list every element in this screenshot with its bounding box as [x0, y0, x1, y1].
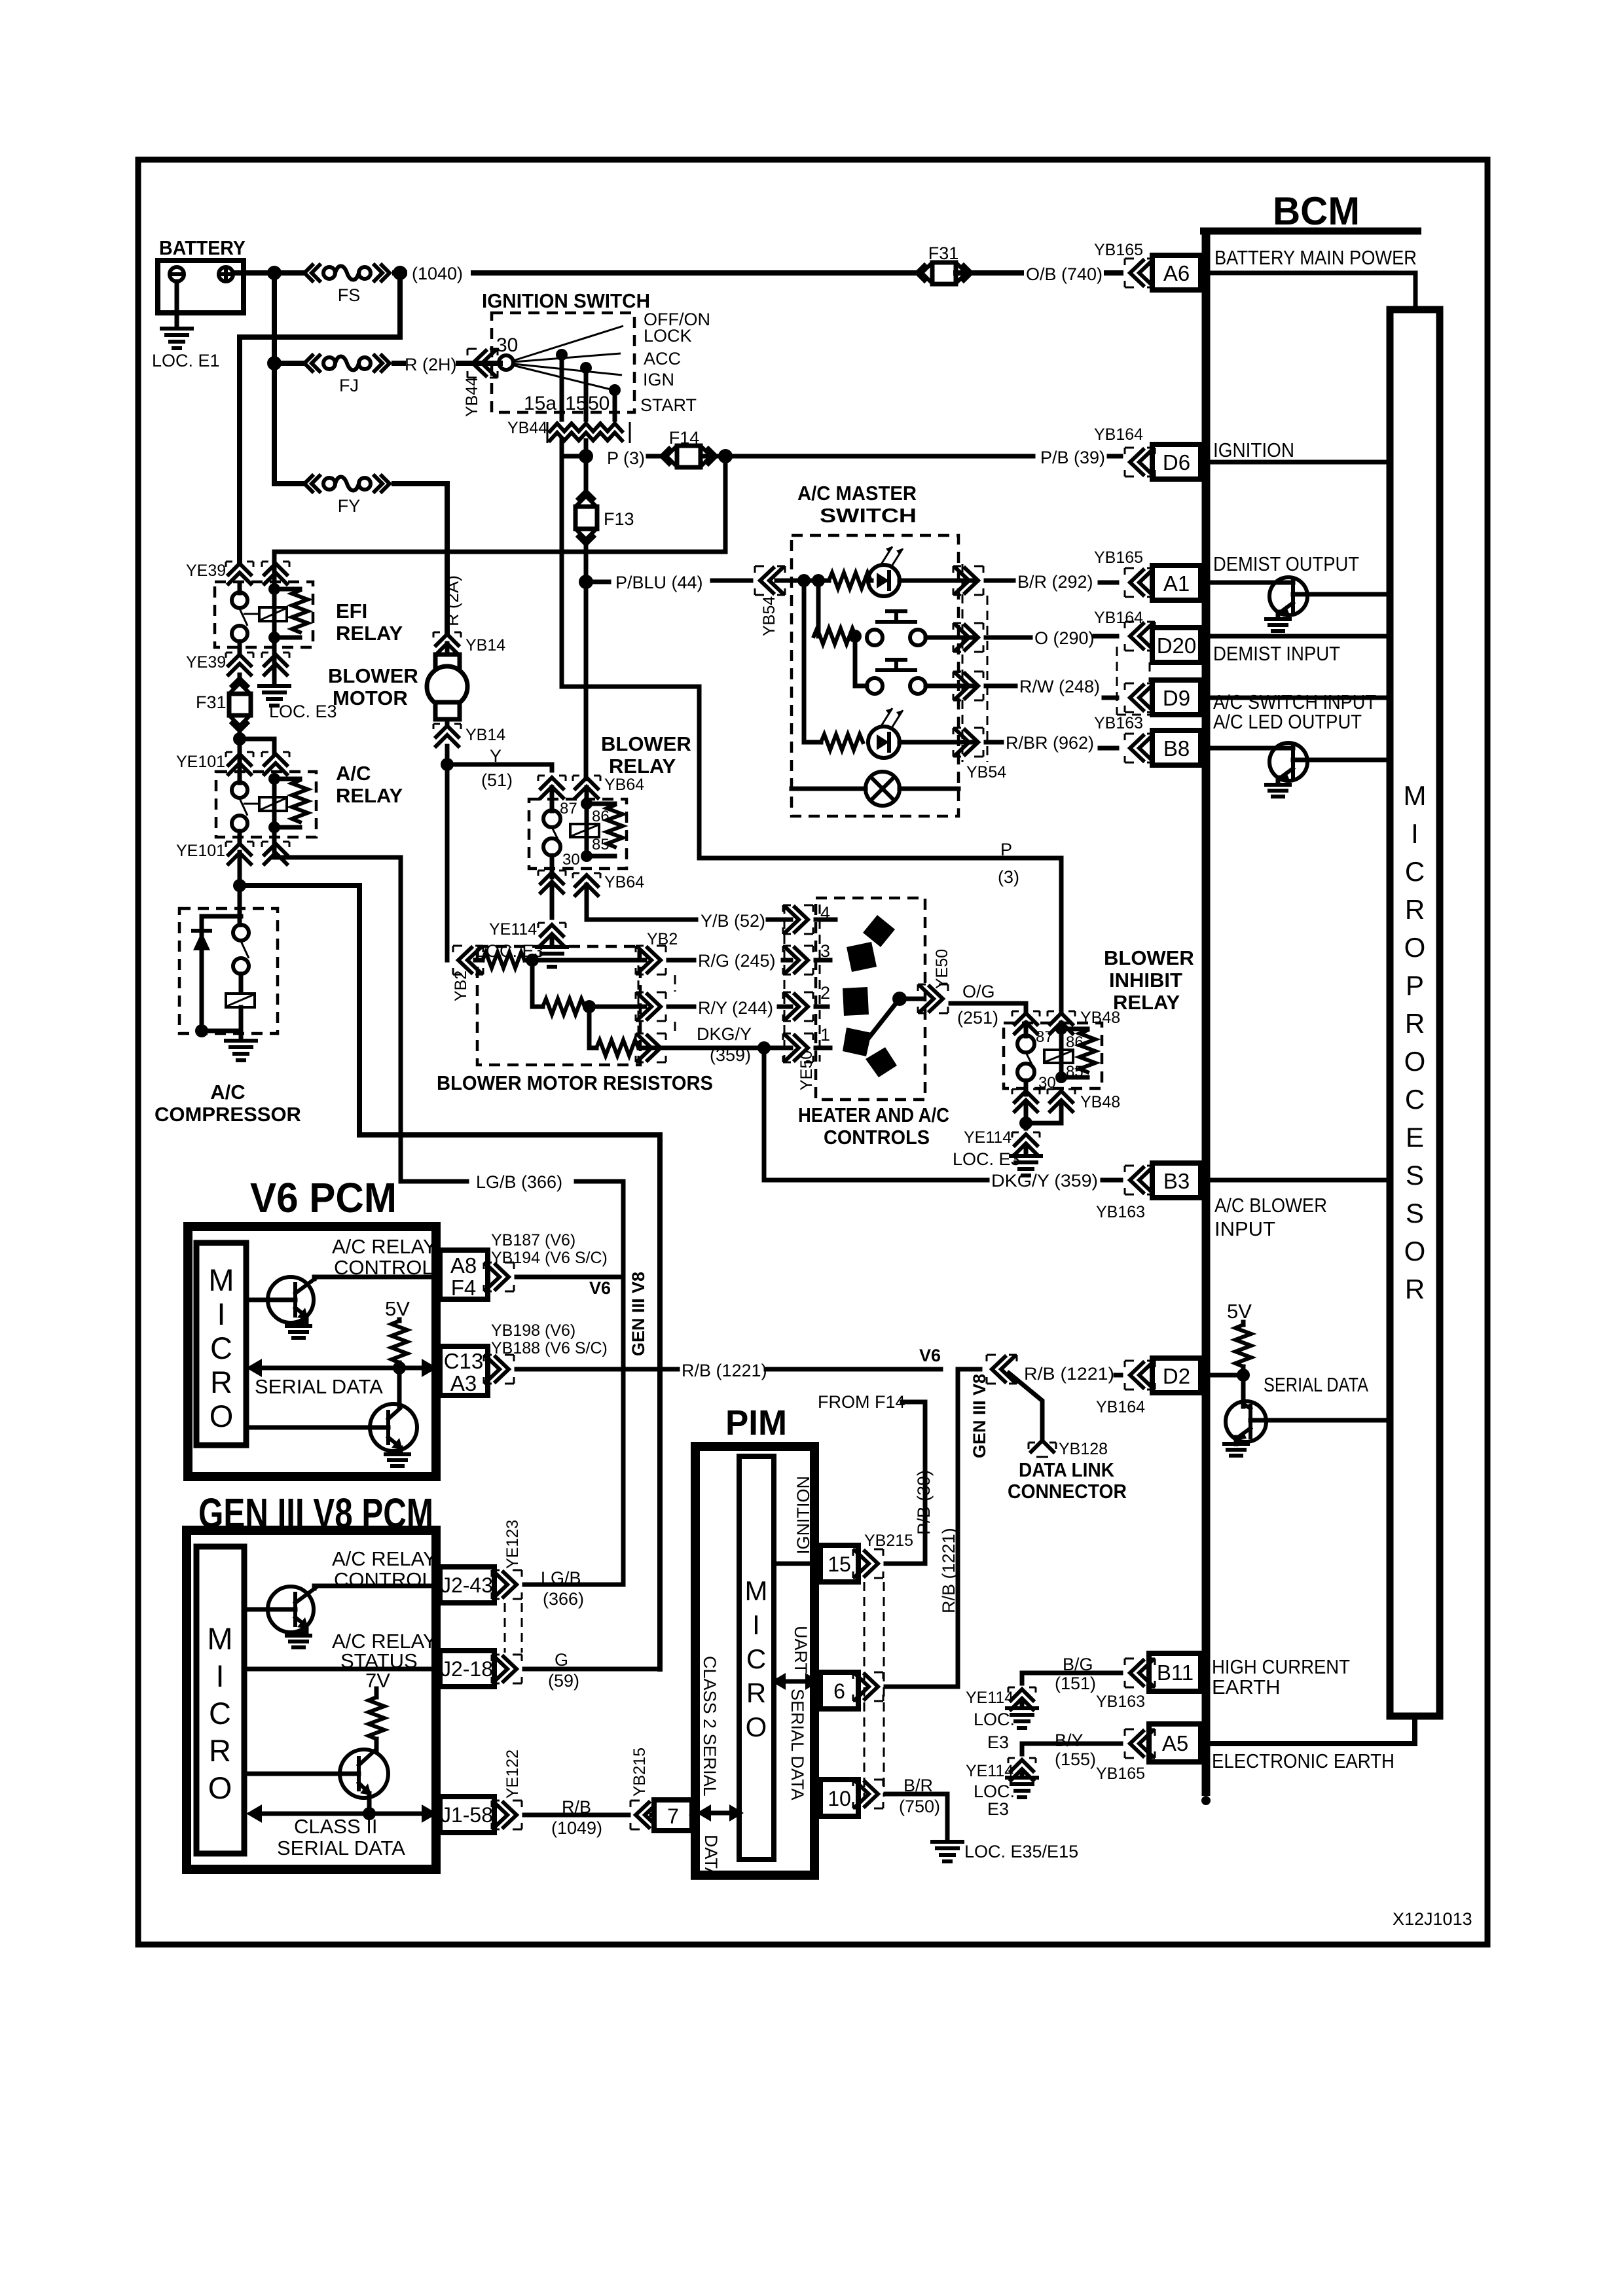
svg-text:LOC. E35/E15: LOC. E35/E15 [964, 1842, 1078, 1861]
svg-text:15: 15 [565, 393, 587, 414]
wire row1 to B/R [956, 579, 976, 583]
V6 PCM box [188, 1227, 436, 1477]
svg-text:CONNECTOR: CONNECTOR [1008, 1480, 1127, 1503]
svg-text:A/C RELAY: A/C RELAY [332, 1547, 437, 1570]
BCM top bar [1200, 228, 1421, 235]
svg-text:6: 6 [833, 1679, 845, 1703]
svg-text:I: I [217, 1297, 225, 1331]
svg-text:50: 50 [588, 393, 610, 414]
svg-text:E: E [1406, 1122, 1424, 1153]
ground LOC. E3 (EFI relay) [259, 686, 337, 721]
svg-text:5V: 5V [1227, 1300, 1252, 1323]
svg-text:INPUT: INPUT [1214, 1217, 1275, 1240]
svg-text:S: S [1406, 1160, 1424, 1191]
svg-text:A/C: A/C [336, 762, 371, 785]
svg-text:RELAY: RELAY [336, 622, 403, 645]
svg-text:UART: UART [791, 1626, 811, 1674]
svg-text:A/C LED OUTPUT: A/C LED OUTPUT [1213, 710, 1362, 733]
svg-text:EARTH: EARTH [1212, 1676, 1281, 1698]
wire (1040) to F31 [395, 270, 919, 276]
svg-text:A8: A8 [450, 1253, 477, 1278]
wire D20 to microprocessor [1210, 634, 1390, 639]
pin J2-18 [440, 1651, 494, 1687]
label CLASS 2 SERIAL DATA [697, 1656, 744, 1879]
wire to A/C relay status net [240, 886, 660, 1669]
label UART SERIAL DATA [771, 1626, 820, 1801]
svg-text:LOC.: LOC. [974, 1710, 1015, 1729]
svg-text:DKG/Y: DKG/Y [697, 1024, 752, 1044]
node master feed 1 [797, 574, 811, 587]
resistor (demist LED) [829, 573, 871, 588]
connector YE101 (bottom) [176, 842, 289, 864]
ground (Q5) [386, 1454, 409, 1466]
svg-text:V6: V6 [919, 1346, 941, 1365]
wire F14 to D6 (P/B 39) [702, 454, 1121, 459]
connector YB164 (D2) [1096, 1361, 1155, 1416]
svg-text:D20: D20 [1157, 634, 1197, 658]
serial data bus arrow (V6) [246, 1359, 437, 1398]
label B/Y (155) [1055, 1731, 1096, 1769]
svg-text:LOCK: LOCK [644, 326, 692, 346]
connector YB48 (bottom) [1012, 1089, 1120, 1111]
wire LG/B (366) net [401, 1181, 623, 1585]
resistor (A/C LED) [804, 581, 863, 750]
wire row2 to O (290) [956, 636, 976, 640]
node blower motor output [441, 758, 454, 771]
node battery junction [267, 266, 282, 280]
svg-text:LOC. E1: LOC. E1 [152, 351, 220, 370]
wire to A/C relay coil side [240, 739, 274, 755]
svg-text:I: I [752, 1609, 760, 1640]
transistor Q4 (V6 A/C relay control) [246, 1277, 440, 1323]
svg-text:D6: D6 [1163, 450, 1190, 475]
svg-text:MOTOR: MOTOR [333, 687, 408, 709]
label BLOWER INHIBIT RELAY [1104, 946, 1194, 1014]
svg-text:C13: C13 [444, 1349, 484, 1373]
BCM main line [1202, 231, 1211, 1796]
node ignition IGN contact [580, 362, 592, 374]
connector YB165 (A6) [1094, 241, 1155, 287]
svg-text:(750): (750) [899, 1797, 940, 1816]
svg-text:1: 1 [820, 1025, 830, 1045]
connector YB64 (bottom) [538, 870, 644, 895]
wire O/B to A6 connector [1106, 270, 1121, 276]
ground (B/G) [1007, 1700, 1037, 1728]
wire P/BLU to A/C master switch [586, 581, 751, 582]
pin B3 [1152, 1163, 1201, 1198]
svg-text:YB163: YB163 [1096, 1693, 1145, 1711]
svg-text:R/W (248): R/W (248) [1019, 677, 1100, 696]
pin 7 (PIM) [651, 1800, 692, 1831]
svg-text:A/C: A/C [210, 1081, 245, 1103]
wire D9 to microprocessor [1210, 696, 1390, 700]
connector YB48 (top) [1012, 1009, 1120, 1033]
pin A5 [1149, 1724, 1201, 1762]
svg-text:(3): (3) [998, 867, 1019, 887]
pin 6 (PIM) [820, 1672, 858, 1709]
svg-text:B8: B8 [1163, 736, 1190, 761]
wire R (2H) to ignition switch [394, 361, 500, 366]
svg-text:A3: A3 [450, 1371, 477, 1395]
svg-text:YE114: YE114 [489, 920, 537, 939]
svg-text:(1040): (1040) [412, 264, 463, 283]
svg-text:R/B (1221): R/B (1221) [939, 1528, 958, 1613]
svg-text:P/B (39): P/B (39) [914, 1470, 934, 1535]
resistor R3 (blower) [589, 1007, 684, 1056]
wire pin15 down to P (3) node [584, 440, 589, 456]
wire inhibit relay to YE114 ground [1019, 1102, 1061, 1130]
svg-text:A1: A1 [1163, 571, 1190, 596]
svg-text:YE114: YE114 [964, 1128, 1012, 1147]
svg-text:YE39: YE39 [186, 562, 226, 580]
svg-text:YB14: YB14 [465, 726, 505, 744]
ground (Q3) [1224, 1444, 1248, 1456]
svg-text:S: S [1406, 1198, 1424, 1229]
svg-text:O: O [210, 1399, 234, 1433]
connector YB54 (input) [755, 566, 785, 636]
svg-text:P: P [1000, 840, 1012, 859]
wire P (3) down to inhibit relay coil [1059, 858, 1064, 1011]
svg-text:YE101: YE101 [176, 842, 225, 860]
svg-text:(151): (151) [1055, 1674, 1096, 1693]
svg-text:E3: E3 [987, 1732, 1009, 1752]
relay EFI RELAY K1 [215, 552, 403, 652]
svg-text:YB187 (V6): YB187 (V6) [491, 1231, 575, 1249]
wire A8/F4 to LG/B vertical [517, 1275, 623, 1280]
wire G (59) to status vertical [524, 1667, 660, 1672]
wire micro to pin 15 [774, 1562, 820, 1566]
connector YB165 (A1) [1094, 548, 1155, 597]
node emitter junction [363, 1807, 376, 1820]
svg-text:CONTROLS: CONTROLS [824, 1126, 930, 1149]
connector YB215 (pin 7) [630, 1748, 661, 1829]
connector YB165 (A5) [1096, 1729, 1155, 1783]
blower motor resistors box [437, 946, 713, 1094]
svg-text:YE114: YE114 [966, 1689, 1013, 1707]
svg-text:YE123: YE123 [503, 1520, 522, 1569]
wire P(3) left branch down [562, 456, 1061, 858]
svg-text:V6 PCM: V6 PCM [250, 1174, 397, 1221]
connector D9 (dashed group) [1117, 647, 1155, 715]
svg-text:P/BLU (44): P/BLU (44) [615, 573, 703, 592]
svg-text:YB198 (V6): YB198 (V6) [491, 1321, 575, 1340]
ground LOC. E3 (inhibit relay) [953, 1145, 1041, 1175]
svg-text:BLOWER: BLOWER [601, 732, 691, 755]
connector YB163 (B3) [1096, 1166, 1155, 1221]
svg-text:O/B (740): O/B (740) [1026, 264, 1103, 284]
svg-text:R/B (1221): R/B (1221) [1024, 1364, 1114, 1384]
svg-text:YB44: YB44 [463, 377, 481, 417]
svg-text:DATA: DATA [701, 1835, 721, 1879]
transistor Q3 (serial data) [1226, 1375, 1390, 1444]
svg-text:YB194 (V6 S/C): YB194 (V6 S/C) [491, 1249, 608, 1267]
wire O to D20 [986, 636, 1117, 637]
label A/C RELAY CONTROL (V8) [332, 1547, 437, 1591]
battery B1 [158, 236, 246, 327]
relay BLOWER INHIBIT RELAY K4 [1004, 1023, 1102, 1094]
connector YB64 (top) [538, 776, 644, 798]
svg-text:86: 86 [1066, 1033, 1084, 1051]
svg-text:C: C [1405, 856, 1425, 887]
svg-text:EFI: EFI [336, 600, 367, 622]
node ignition ACC contact [556, 349, 568, 361]
svg-text:Y/B (52): Y/B (52) [701, 911, 765, 931]
node P (3) [579, 449, 593, 463]
svg-text:P (3): P (3) [607, 448, 645, 468]
svg-text:O: O [208, 1770, 232, 1805]
svg-text:IGNITION: IGNITION [793, 1476, 813, 1554]
svg-text:SWITCH: SWITCH [820, 504, 917, 527]
svg-text:IGN: IGN [643, 370, 674, 389]
ground (Q4) [287, 1326, 310, 1338]
svg-text:INHIBIT: INHIBIT [1109, 969, 1182, 992]
label Y (51) [481, 746, 513, 790]
wire pin 6 R/B (1221) up to D2 net [886, 1369, 980, 1687]
connector YB44 (switch bottom) [507, 419, 630, 443]
pin J1-58 [440, 1797, 494, 1833]
LED A/C indicator [868, 708, 976, 758]
svg-text:FY: FY [338, 496, 361, 516]
svg-text:O: O [1404, 1046, 1426, 1077]
svg-text:B11: B11 [1157, 1660, 1194, 1685]
connector YB14 (top) [433, 632, 505, 655]
svg-text:PIM: PIM [725, 1403, 787, 1443]
connector YB164 (D6) [1094, 425, 1155, 476]
connector YE39 (bottom) [186, 653, 289, 675]
svg-text:YB128: YB128 [1059, 1440, 1108, 1458]
fuse FY [274, 476, 447, 632]
wire R/W to D9 [986, 686, 1117, 698]
connector YE114 (B/Y) [966, 1758, 1036, 1819]
wire J2-43 to LG/B vertical [524, 1583, 623, 1587]
V8 micro box [196, 1547, 244, 1854]
node master feed 2 [812, 574, 825, 587]
label R/B (1049) [551, 1797, 602, 1838]
svg-text:F31: F31 [196, 692, 227, 712]
svg-text:HEATER AND A/C: HEATER AND A/C [798, 1103, 949, 1126]
svg-text:J2-18: J2-18 [441, 1657, 493, 1681]
compressor clutch A/C COMPRESSOR [155, 886, 301, 1126]
svg-text:(59): (59) [548, 1671, 579, 1691]
svg-text:R: R [1405, 1274, 1425, 1304]
svg-text:YB64: YB64 [604, 873, 644, 891]
svg-text:I: I [1411, 818, 1419, 849]
svg-text:YB165: YB165 [1094, 241, 1143, 259]
connector R/B splice [987, 1355, 1017, 1384]
svg-text:J2-43: J2-43 [441, 1573, 493, 1597]
label A/C BLOWER INPUT [1214, 1194, 1327, 1240]
connector YB44 (ignition switch) [463, 349, 498, 417]
svg-text:F13: F13 [604, 509, 634, 529]
relay BLOWER RELAY K3 [529, 787, 627, 877]
svg-text:LG/B (366): LG/B (366) [476, 1172, 562, 1192]
wire B/R (750) to ground [886, 1794, 947, 1840]
wire R/B (1221) V6 serial [517, 1367, 941, 1372]
resistor 5V pull-up [1235, 1322, 1251, 1375]
svg-text:R (2A): R (2A) [443, 575, 462, 626]
pin D6 [1152, 444, 1201, 479]
svg-text:15: 15 [828, 1552, 851, 1576]
svg-text:M: M [1404, 780, 1427, 811]
svg-text:A/C MASTER: A/C MASTER [797, 482, 917, 505]
svg-text:C: C [746, 1643, 766, 1674]
resistor R1 (blower) [475, 952, 645, 968]
fuse FS [304, 265, 390, 305]
wire P/BLU down to blower relay [584, 582, 589, 779]
svg-text:BATTERY: BATTERY [159, 236, 246, 259]
A/C master switch [792, 482, 958, 816]
connector (pin 10) [853, 1780, 883, 1808]
svg-text:R: R [210, 1365, 232, 1399]
pin A1 [1152, 565, 1201, 600]
ground (B/Y) [1007, 1771, 1037, 1797]
svg-text:LOC.: LOC. [974, 1782, 1015, 1801]
svg-text:R: R [209, 1733, 231, 1768]
wire DKG/Y to heater controls [684, 1046, 791, 1050]
connector YE122 [492, 1749, 522, 1829]
wire battery junction down [272, 273, 277, 484]
svg-text:SERIAL DATA: SERIAL DATA [1264, 1373, 1368, 1396]
pin B8 [1152, 730, 1201, 765]
ground LOC. E35/E15 [932, 1842, 1078, 1861]
connector YE50 (wiper output) [918, 949, 951, 1013]
wire R/BR to B8 [986, 742, 1117, 748]
svg-text:O: O [746, 1712, 767, 1742]
svg-text:D2: D2 [1163, 1364, 1190, 1388]
pin 15 (PIM) [820, 1545, 858, 1582]
wire D6 to microprocessor [1210, 460, 1390, 465]
wire A/C relay coil return to LG/B net [274, 833, 401, 1181]
node 5V serial junction [393, 1361, 406, 1374]
PIM box [695, 1446, 814, 1875]
fuse FJ [274, 355, 390, 395]
wire D2 to pull-up node [1210, 1373, 1243, 1378]
svg-text:LOC. E3: LOC. E3 [953, 1149, 1021, 1169]
class II serial data arrow [246, 1804, 437, 1859]
svg-text:LOC. E3: LOC. E3 [269, 702, 337, 721]
svg-text:A6: A6 [1163, 261, 1190, 285]
svg-text:O: O [1404, 932, 1426, 963]
microprocessor box [1390, 310, 1440, 1716]
wire A/C relay contact output down [238, 852, 242, 886]
switch blade to data link connector [1009, 1373, 1042, 1439]
node A/C relay feed [233, 732, 246, 745]
wire pin 15 to FROM F14 [886, 1402, 925, 1564]
svg-text:BLOWER: BLOWER [328, 664, 418, 687]
svg-text:IGNITION: IGNITION [1213, 439, 1294, 461]
svg-text:M: M [208, 1263, 234, 1297]
wire Y/B (52) blower relay coil to heater controls [587, 885, 791, 920]
label DATA LINK CONNECTOR [1008, 1458, 1127, 1503]
svg-text:87: 87 [560, 800, 577, 817]
V6 micro box [196, 1243, 246, 1445]
wire Y (51) to blower relay contact [447, 764, 552, 770]
wire A5 to microprocessor bottom [1210, 1720, 1415, 1744]
ground LOC. E1 [152, 329, 220, 370]
connector YE101 (top) [176, 752, 289, 774]
label A/C RELAY STATUS [332, 1630, 437, 1672]
svg-text:B/Y: B/Y [1055, 1731, 1084, 1750]
svg-text:YE50: YE50 [797, 1050, 816, 1090]
node FJ junction [267, 356, 282, 370]
ground LOC. E3 (blower relay) [476, 936, 567, 967]
svg-text:X12J1013: X12J1013 [1393, 1909, 1472, 1929]
wire P(3) to F14 [562, 454, 666, 459]
node serial data [1237, 1369, 1250, 1382]
label BLOWER RELAY [601, 732, 691, 778]
svg-text:C: C [209, 1696, 231, 1731]
node after F14 [718, 449, 733, 463]
connector YB14 (bottom) [433, 724, 505, 960]
heater and A/C controls [798, 898, 949, 1149]
svg-text:J1-58: J1-58 [441, 1803, 493, 1827]
svg-text:R (2H): R (2H) [405, 355, 457, 374]
svg-text:30: 30 [496, 334, 518, 356]
svg-text:BATTERY MAIN POWER: BATTERY MAIN POWER [1214, 246, 1417, 269]
svg-text:YB215: YB215 [864, 1532, 913, 1550]
svg-text:SERIAL DATA: SERIAL DATA [788, 1689, 807, 1801]
svg-text:5V: 5V [385, 1297, 410, 1320]
fuse F31 (compressor feed) [196, 675, 251, 739]
svg-text:YE39: YE39 [186, 653, 226, 672]
svg-text:(1049): (1049) [551, 1818, 602, 1838]
svg-text:SERIAL DATA: SERIAL DATA [277, 1837, 405, 1859]
svg-text:R/Y (244): R/Y (244) [698, 998, 773, 1018]
connector YE114 (inhibit relay) [964, 1128, 1040, 1155]
svg-text:P/B (39): P/B (39) [1040, 448, 1105, 467]
rotary fan switch wedges [816, 915, 923, 1077]
GEN III V8 PCM box [187, 1530, 436, 1869]
svg-text:START: START [640, 395, 697, 415]
wire B/R to A1 [986, 581, 1117, 583]
pin C13/A3 [440, 1346, 488, 1395]
ignition switch S1 [482, 289, 710, 415]
pin A8/F4 [440, 1250, 488, 1300]
wire R/Y to heater controls [668, 1005, 791, 1009]
svg-text:YB165: YB165 [1096, 1765, 1145, 1783]
node R1 out [526, 954, 539, 967]
svg-text:E3: E3 [987, 1799, 1009, 1819]
wire battery positive to node (1040) [233, 270, 304, 276]
pushbutton A/C switch [855, 636, 976, 694]
relay A/C RELAY K2 [216, 743, 403, 844]
svg-text:YB64: YB64 [604, 776, 644, 794]
wire B/Y to YE114 ground [1022, 1744, 1121, 1754]
connector YB2 (outputs) [636, 930, 678, 1062]
node P/BLU (44) [579, 575, 593, 589]
svg-text:R: R [1405, 1008, 1425, 1039]
label A/C RELAY CONTROL (V6) [332, 1235, 437, 1279]
svg-text:(366): (366) [543, 1589, 584, 1609]
fuse F13 [575, 456, 634, 582]
pin J2-43 [440, 1567, 494, 1603]
connector YE114 (B/G) [966, 1687, 1036, 1752]
ground (Q1) [1266, 619, 1290, 631]
label O/G (251) [957, 982, 998, 1028]
svg-text:IGNITION SWITCH: IGNITION SWITCH [482, 289, 650, 312]
svg-text:FS: FS [338, 285, 361, 305]
svg-text:O: O [1404, 1236, 1426, 1266]
svg-text:RELAY: RELAY [609, 755, 676, 778]
wire pin 15a down to corner [560, 440, 564, 456]
transistor Q6 (V8 A/C relay control) [244, 1586, 440, 1633]
svg-text:DEMIST OUTPUT: DEMIST OUTPUT [1213, 552, 1359, 575]
svg-text:30: 30 [562, 851, 580, 869]
border frame [138, 160, 1487, 1945]
svg-text:BLOWER: BLOWER [1104, 946, 1194, 969]
connector YB2 (input) [452, 946, 483, 1001]
connector (pin 6) [853, 1672, 883, 1701]
